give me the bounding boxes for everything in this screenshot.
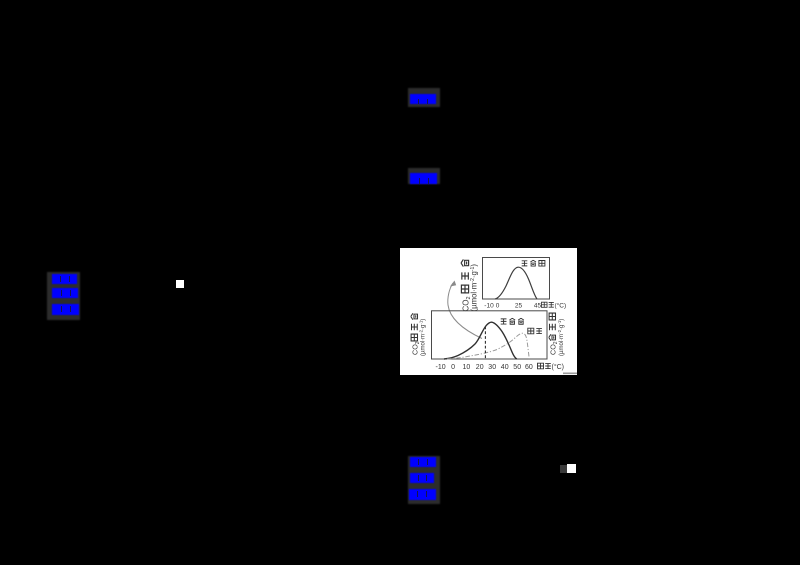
svg-text:0: 0	[451, 364, 455, 371]
svg-text:20: 20	[476, 364, 484, 371]
svg-text:60: 60	[525, 364, 533, 371]
svg-text:0: 0	[496, 303, 500, 310]
svg-text:40: 40	[501, 364, 509, 371]
svg-text:(°C): (°C)	[555, 302, 567, 310]
svg-text:30: 30	[488, 364, 496, 371]
svg-text:45: 45	[534, 303, 542, 310]
svg-text:-10: -10	[436, 364, 446, 371]
svg-text:50: 50	[513, 364, 521, 371]
svg-text:-10: -10	[484, 303, 494, 310]
svg-text:10: 10	[463, 364, 471, 371]
svg-text:(°C): (°C)	[552, 363, 565, 371]
svg-text:25: 25	[515, 303, 523, 310]
